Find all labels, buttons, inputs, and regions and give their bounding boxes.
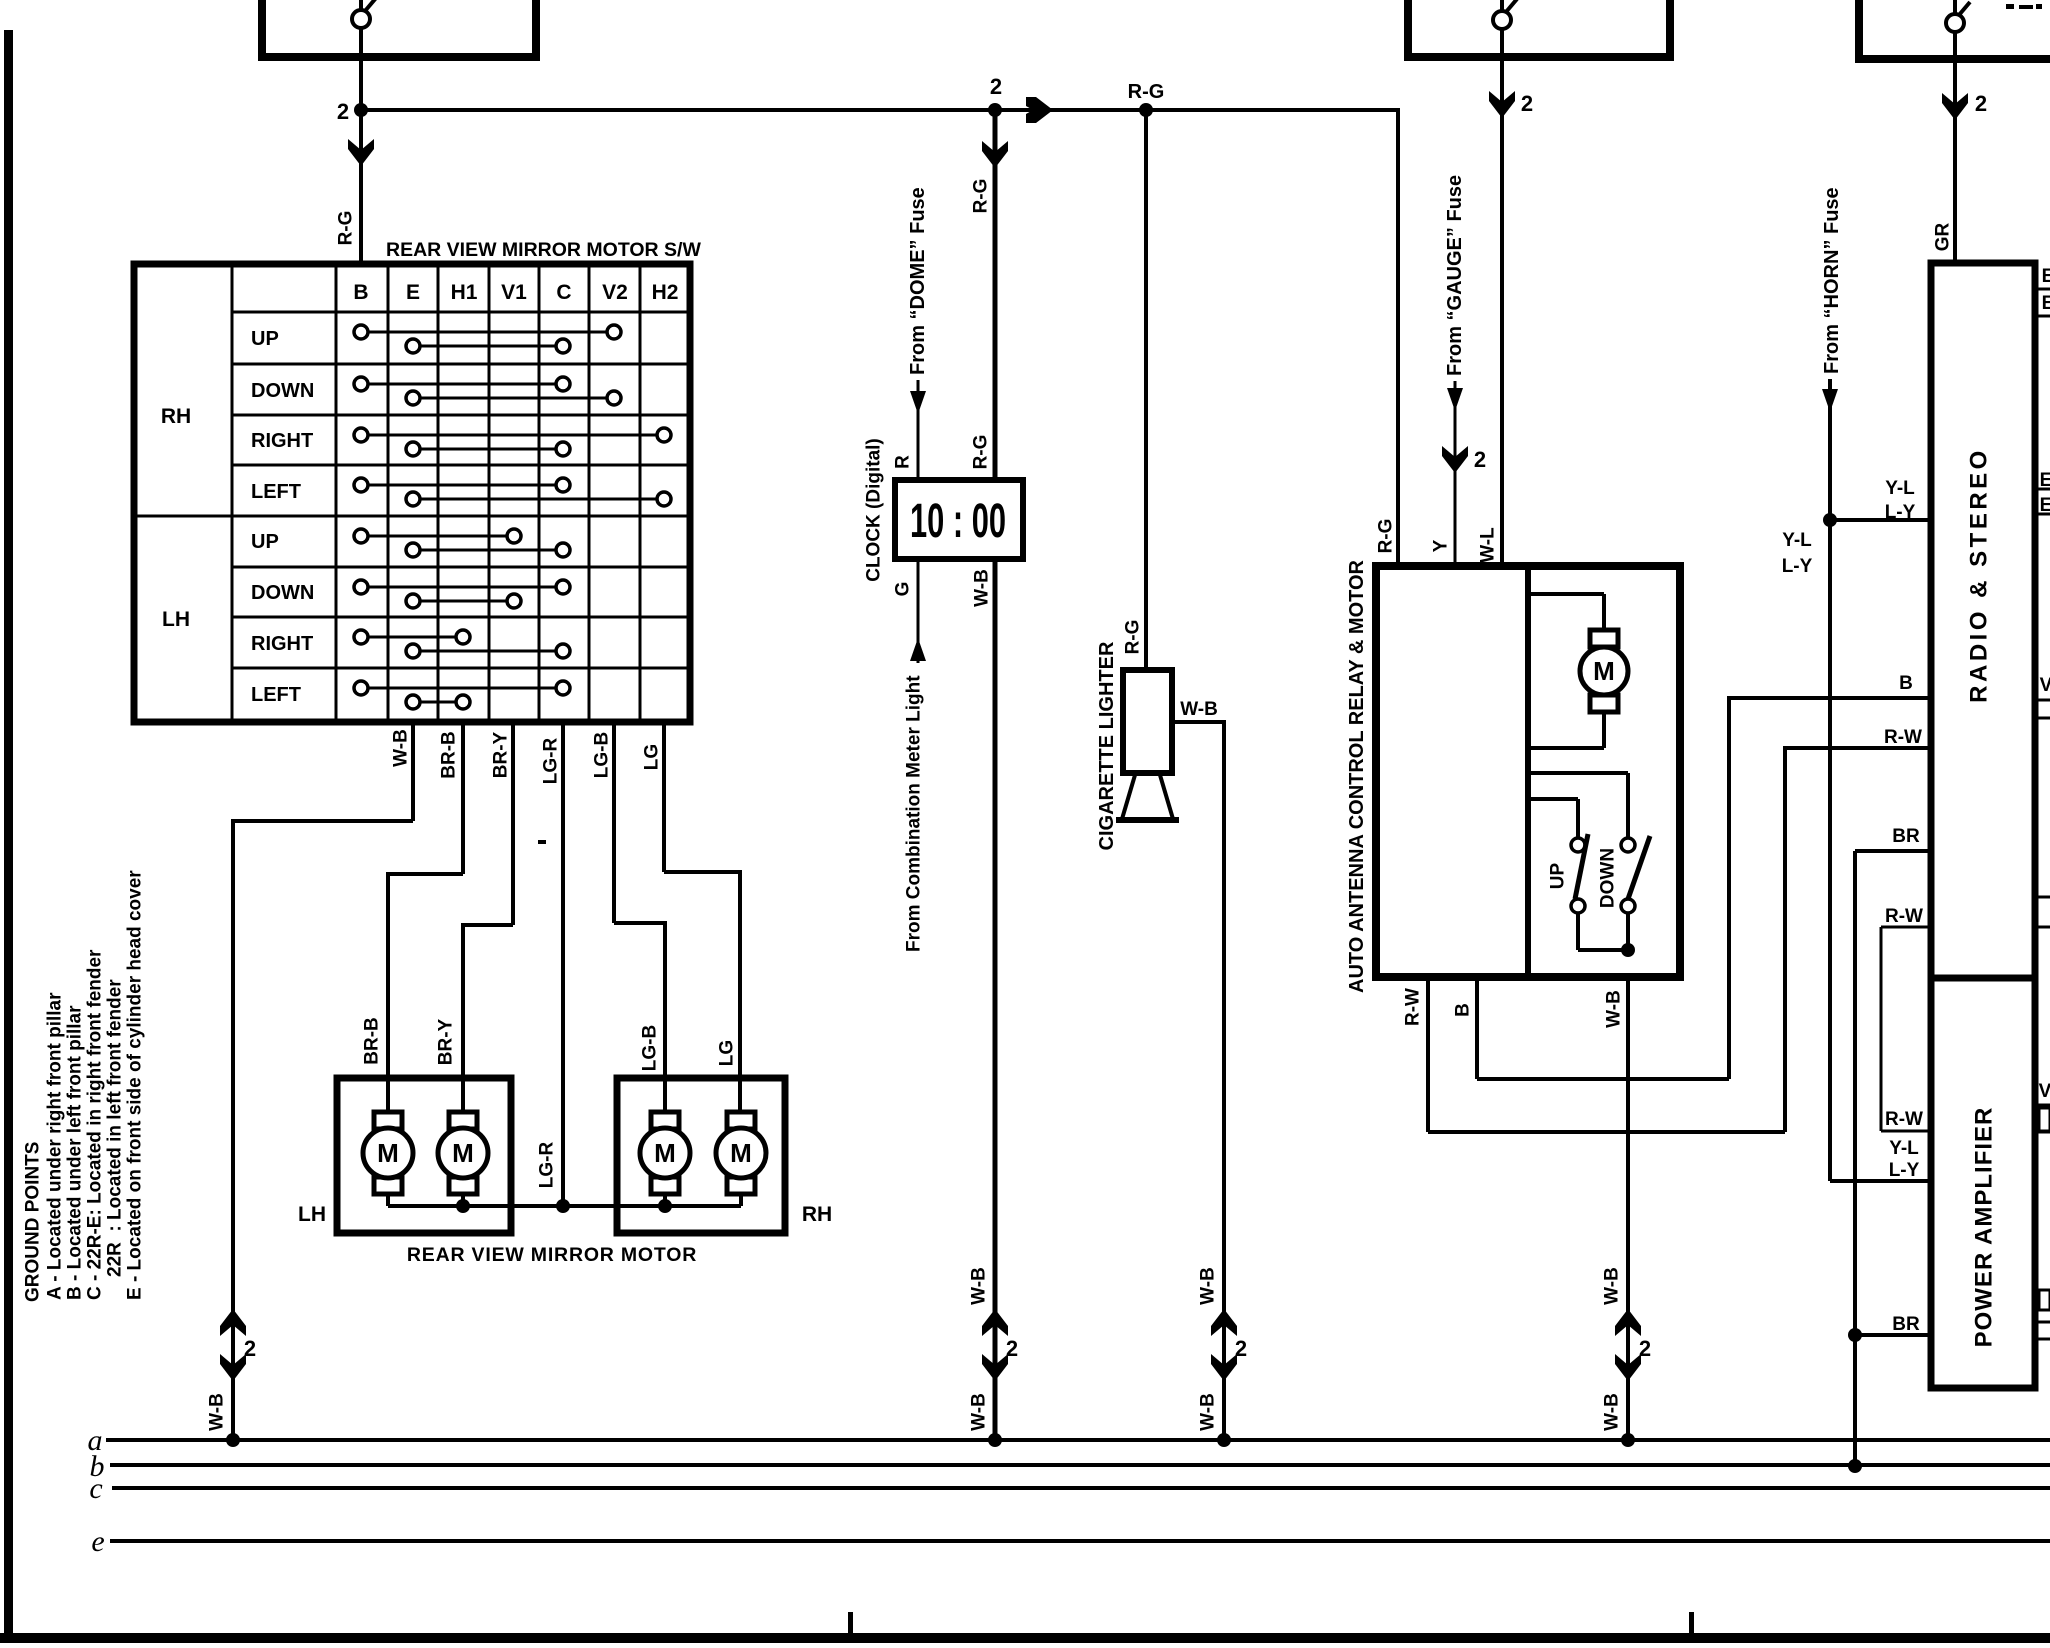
svg-text:From “DOME” Fuse: From “DOME” Fuse	[907, 187, 929, 375]
wire R-G through clock drop (upper)	[993, 110, 998, 480]
svg-text:c: c	[89, 1472, 102, 1505]
svg-text:B: B	[1453, 1003, 1474, 1017]
connector circle on J1	[352, 0, 376, 28]
svg-text:W-B: W-B	[1602, 1393, 1623, 1431]
wire Y-L L-Y junction to radio	[1830, 518, 1931, 522]
svg-text:DOWN: DOWN	[1598, 848, 1619, 908]
arrow on DOME feed	[910, 391, 926, 414]
svg-text:Y: Y	[1431, 539, 1452, 552]
mirror motor M3 (RH)	[640, 1112, 690, 1194]
svg-text:LG-B: LG-B	[592, 732, 613, 778]
svg-text:BR-Y: BR-Y	[436, 1018, 457, 1065]
antenna relay outer box	[1376, 566, 1680, 977]
svg-text:LG: LG	[642, 744, 663, 770]
switch contacts row RH RIGHT	[354, 428, 671, 456]
clock (digital) box	[895, 480, 1023, 559]
main R-G feed wire (horizontal)	[361, 108, 1400, 112]
svg-text:From “GAUGE” Fuse: From “GAUGE” Fuse	[1444, 175, 1466, 376]
junction dot at B-column drop	[354, 103, 368, 117]
connector box J2 (top middle, feeds W-L)	[1404, 0, 1674, 57]
svg-text:V: V	[2039, 1081, 2050, 1102]
antenna motor circuit wires	[1528, 594, 1604, 748]
switch UP contacts and blade	[1571, 834, 1588, 913]
arrow on HORN feed	[1822, 389, 1838, 412]
svg-text:M: M	[654, 1138, 676, 1168]
wire BR radio to amplifier and ground	[1855, 851, 1931, 1466]
antenna motor M	[1580, 630, 1628, 712]
RADIO &amp; STEREO box	[1931, 263, 2035, 978]
svg-text:10 : 00: 10 : 00	[910, 495, 1006, 548]
svg-text:V: V	[2040, 675, 2050, 696]
svg-text:LG: LG	[717, 1040, 738, 1066]
svg-text:R-G: R-G	[336, 211, 357, 246]
svg-text:AUTO ANTENNA CONTROL RELAY & M: AUTO ANTENNA CONTROL RELAY & MOTOR	[1346, 559, 1368, 993]
connector arrow 2 on W-L wire	[1489, 91, 1515, 118]
svg-text:E: E	[2042, 266, 2050, 287]
top right corner print fragments	[2006, 4, 2042, 9]
svg-text:R-G: R-G	[971, 179, 992, 214]
svg-text:RIGHT: RIGHT	[251, 633, 313, 655]
switch contacts row LH UP	[354, 529, 570, 557]
inline connector 2 on ground wire x=233	[220, 1309, 246, 1381]
svg-text:R-G: R-G	[1128, 81, 1165, 103]
svg-text:GR: GR	[1933, 222, 1954, 251]
bottom border tick 1	[848, 1612, 853, 1636]
svg-text:A - Located under right front: A - Located under right front pillar	[45, 992, 66, 1300]
svg-text:E - Located on front side of c: E - Located on front side of cylinder he…	[125, 870, 146, 1300]
svg-text:L-Y: L-Y	[1885, 502, 1916, 523]
wire W-B relay to ground	[1626, 977, 1630, 1440]
svg-text:LEFT: LEFT	[251, 481, 301, 503]
LH mirror motor box	[337, 1078, 511, 1233]
svg-text:2: 2	[990, 74, 1002, 99]
svg-text:2: 2	[1474, 447, 1486, 472]
R-W jumper rectangle at amplifier	[1881, 927, 1931, 1131]
scan speck	[538, 840, 546, 844]
svg-text:H2: H2	[652, 281, 679, 304]
wire feed corner down to antenna relay R-G	[1396, 108, 1400, 566]
svg-text:W-B: W-B	[972, 569, 993, 607]
amplifier right edge pins upper	[2038, 1081, 2050, 1132]
wire W-B from switch E pin to ground drop	[233, 722, 413, 1440]
svg-text:RH: RH	[161, 405, 191, 428]
svg-text:BR: BR	[1892, 1314, 1920, 1335]
RH mirror motor box	[617, 1078, 785, 1233]
svg-text:LEFT: LEFT	[251, 684, 301, 706]
svg-text:BR-B: BR-B	[362, 1017, 383, 1065]
motor common bus wire	[388, 1194, 741, 1206]
ground bus e	[110, 1539, 2050, 1543]
wire drop to mirror switch B pin	[359, 110, 363, 264]
svg-text:DOWN: DOWN	[251, 582, 314, 604]
svg-text:REAR VIEW MIRROR MOTOR S/W: REAR VIEW MIRROR MOTOR S/W	[386, 239, 701, 261]
switch table outer border	[134, 264, 690, 722]
switch contacts row LH LEFT	[354, 681, 570, 709]
switch contacts row RH DOWN	[354, 377, 621, 405]
svg-text:22R : Located in left front f: 22R : Located in left front fender	[105, 979, 126, 1277]
svg-text:DOWN: DOWN	[251, 380, 314, 402]
connector arrow 2 on GR wire	[1942, 93, 1968, 120]
wire R-G to cigarette lighter	[1144, 110, 1148, 672]
inline connector 2 on ground wire x=995	[982, 1309, 1008, 1381]
inline connector 2 on ground wire x=1224	[1211, 1309, 1237, 1381]
svg-text:2: 2	[337, 99, 349, 124]
inline connector 2 on ground wire x=1628	[1615, 1309, 1641, 1381]
junction dot at lighter drop	[1139, 103, 1153, 117]
ground bus b	[110, 1463, 2050, 1467]
svg-text:CLOCK (Digital): CLOCK (Digital)	[864, 438, 885, 582]
junction dot BR at amplifier	[1848, 1328, 1862, 1342]
wire J2 down to antenna relay (W-L)	[1500, 0, 1504, 566]
wire LG from switch H2 pin to RH motor 2	[664, 722, 740, 1112]
svg-text:B: B	[1899, 673, 1913, 694]
svg-text:R-G: R-G	[971, 435, 992, 470]
svg-text:LG-R: LG-R	[537, 1142, 558, 1189]
connector box J1 (top left, feeds R-G)	[258, 0, 540, 57]
svg-text:LH: LH	[298, 1203, 326, 1226]
svg-text:POWER AMPLIFIER: POWER AMPLIFIER	[1971, 1107, 1998, 1348]
svg-text:2: 2	[244, 1336, 256, 1361]
svg-text:W-B: W-B	[391, 729, 412, 767]
wire LG-R from switch C pin to motor common bus	[561, 722, 565, 1206]
junction dot switch common	[1621, 943, 1635, 957]
svg-text:REAR VIEW MIRROR MOTOR: REAR VIEW MIRROR MOTOR	[407, 1244, 697, 1266]
junction dot Y-L/L-Y	[1823, 513, 1837, 527]
connector arrow on B drop	[348, 139, 374, 166]
wire Y from GAUGE fuse to antenna relay	[1454, 381, 1457, 566]
svg-text:M: M	[730, 1138, 752, 1168]
svg-text:W-L: W-L	[1478, 527, 1499, 563]
svg-text:e: e	[91, 1525, 104, 1558]
junction dot RH motor 1	[658, 1199, 672, 1213]
ground bus a	[106, 1438, 2050, 1442]
ground junction dot x=995	[988, 1433, 1002, 1447]
wire B relay to radio	[1477, 696, 1931, 1079]
table row separators	[134, 312, 690, 668]
svg-text:C: C	[556, 281, 571, 304]
ground junction dot x=1224	[1217, 1433, 1231, 1447]
svg-text:W-B: W-B	[207, 1393, 228, 1431]
connector circle on J2	[1493, 0, 1517, 29]
svg-text:R-W: R-W	[1884, 727, 1922, 748]
svg-text:W-B: W-B	[1604, 990, 1625, 1028]
radio right edge pins mid	[2038, 675, 2050, 718]
svg-text:L-Y: L-Y	[1889, 1160, 1920, 1181]
svg-text:V1: V1	[501, 281, 527, 304]
svg-text:E: E	[2042, 293, 2050, 314]
svg-text:M: M	[377, 1138, 399, 1168]
svg-text:W-B: W-B	[1198, 1267, 1219, 1305]
ground points legend text	[23, 870, 146, 1302]
wire J1 to junction (R-G feed drop)	[359, 0, 363, 110]
svg-text:2: 2	[1521, 91, 1533, 116]
switch contacts row RH UP	[354, 325, 621, 353]
table column separators	[232, 264, 640, 722]
wire G from clock to meter light	[917, 559, 920, 663]
antenna switch feed wires	[1528, 773, 1628, 838]
svg-text:Y-L: Y-L	[1782, 530, 1812, 551]
arrow from combination meter light	[910, 638, 926, 661]
mirror motor M4 (RH)	[716, 1112, 766, 1194]
radio right edge pin stubs upper	[2038, 266, 2050, 316]
radio right edge pins with E labels	[2038, 470, 2050, 516]
svg-text:UP: UP	[251, 328, 279, 350]
svg-text:W-B: W-B	[969, 1267, 990, 1305]
svg-text:G: G	[893, 582, 914, 597]
column headers B E H1 V1 C V2 H2	[353, 281, 678, 304]
svg-text:2: 2	[1639, 1336, 1651, 1361]
svg-text:2: 2	[1975, 91, 1987, 116]
svg-text:BR: BR	[1892, 826, 1920, 847]
connector box J3 (top right, feeds GR)	[1855, 0, 2050, 59]
svg-text:W-B: W-B	[969, 1393, 990, 1431]
wire BR-B from switch H1 pin to LH motor 1	[388, 722, 463, 1112]
svg-text:C - 22R-E: Located in right fr: C - 22R-E: Located in right front fender	[85, 949, 106, 1300]
arrow on GAUGE feed	[1447, 388, 1463, 411]
svg-text:E: E	[406, 281, 420, 304]
wire R-W relay to radio	[1428, 746, 1931, 1132]
label Y-L L-Y (amplifier pin)	[1889, 1138, 1920, 1181]
svg-text:RADIO & STEREO: RADIO & STEREO	[1966, 447, 1993, 703]
switch output wires to W-B	[1578, 912, 1628, 950]
mirror motor M1 (LH)	[363, 1112, 413, 1194]
bottom border tick 2	[1689, 1612, 1694, 1636]
ground bus c	[112, 1486, 2050, 1490]
page left border	[4, 30, 13, 1642]
svg-text:R-W: R-W	[1885, 906, 1923, 927]
wire BR-Y from switch V1 pin to LH motor 2	[463, 722, 513, 1112]
junction dot LH motor 2	[456, 1199, 470, 1213]
switch contacts row LH DOWN	[354, 580, 570, 608]
row labels UP DOWN RIGHT LEFT x2	[251, 328, 314, 706]
svg-text:UP: UP	[251, 531, 279, 553]
wire J3 down to radio (GR)	[1953, 0, 1957, 263]
svg-text:GROUND POINTS: GROUND POINTS	[23, 1142, 44, 1302]
svg-text:W-B: W-B	[1602, 1267, 1623, 1305]
amplifier right edge pins lower	[2038, 1290, 2050, 1339]
svg-text:RIGHT: RIGHT	[251, 430, 313, 452]
svg-text:W-B: W-B	[1198, 1393, 1219, 1431]
ground junction dot x=1628	[1621, 1433, 1635, 1447]
wire W-B from clock to ground	[993, 559, 998, 1440]
connector circle on J3	[1946, 2, 1970, 32]
svg-text:LG-R: LG-R	[541, 738, 562, 785]
svg-text:R: R	[893, 455, 914, 469]
junction dot LG-R at bus	[556, 1199, 570, 1213]
svg-text:R-G: R-G	[1123, 620, 1144, 655]
wire DOME fuse to clock (R)	[917, 380, 920, 480]
wire W-B from lighter to ground	[1172, 720, 1224, 1440]
label Y-L L-Y (radio pin)	[1885, 478, 1916, 523]
junction dot at clock drop	[988, 103, 1002, 117]
svg-text:M: M	[1593, 656, 1615, 686]
switch contacts row LH RIGHT	[354, 630, 570, 658]
connector arrow on clock drop	[982, 141, 1008, 168]
svg-text:From “HORN” Fuse: From “HORN” Fuse	[1821, 187, 1843, 374]
svg-text:Y-L: Y-L	[1889, 1138, 1919, 1159]
svg-text:LG-B: LG-B	[640, 1025, 661, 1071]
svg-text:UP: UP	[1548, 862, 1569, 889]
wire LG-B from switch V2 pin to RH motor 1	[614, 722, 665, 1112]
svg-text:2: 2	[1235, 1336, 1247, 1361]
svg-text:H1: H1	[451, 281, 478, 304]
svg-text:V2: V2	[602, 281, 628, 304]
switch contacts row RH LEFT	[354, 478, 671, 506]
junction dot BR at ground bus b	[1848, 1459, 1862, 1473]
switch DOWN contacts and blade	[1621, 836, 1650, 913]
radio right edge pins lower	[2038, 897, 2050, 927]
svg-text:Y-L: Y-L	[1885, 478, 1915, 499]
svg-text:RH: RH	[802, 1203, 832, 1226]
svg-text:W-B: W-B	[1180, 699, 1218, 720]
svg-text:R-W: R-W	[1403, 988, 1424, 1026]
flow arrow on feed wire	[1026, 97, 1053, 123]
connector arrow 2 on GAUGE feed	[1442, 446, 1468, 473]
cigarette lighter heating element	[1116, 775, 1179, 820]
ground junction dot x=233	[226, 1433, 240, 1447]
mirror motor M2 (LH)	[438, 1112, 488, 1194]
svg-text:BR-Y: BR-Y	[491, 731, 512, 778]
svg-text:2: 2	[1006, 1336, 1018, 1361]
svg-text:B: B	[353, 281, 368, 304]
svg-text:From Combination Meter Light: From Combination Meter Light	[904, 675, 925, 952]
svg-text:CIGARETTE LIGHTER: CIGARETTE LIGHTER	[1096, 641, 1118, 850]
svg-text:R-G: R-G	[1376, 519, 1397, 554]
svg-text:B - Located under left front p: B - Located under left front pillar	[65, 1005, 86, 1300]
svg-text:LH: LH	[162, 608, 190, 631]
svg-text:L-Y: L-Y	[1782, 556, 1813, 577]
svg-text:R-W: R-W	[1885, 1109, 1923, 1130]
cigarette lighter body	[1123, 670, 1172, 773]
POWER AMPLIFIER box	[1931, 978, 2035, 1388]
svg-text:M: M	[452, 1138, 474, 1168]
label Y-L L-Y (left of junction)	[1782, 530, 1813, 577]
svg-text:BR-B: BR-B	[439, 731, 460, 779]
page bottom border	[0, 1633, 2050, 1643]
antenna relay inner divider	[1525, 566, 1531, 977]
wire Y-L L-Y from HORN fuse down to amplifier	[1830, 379, 1931, 1181]
